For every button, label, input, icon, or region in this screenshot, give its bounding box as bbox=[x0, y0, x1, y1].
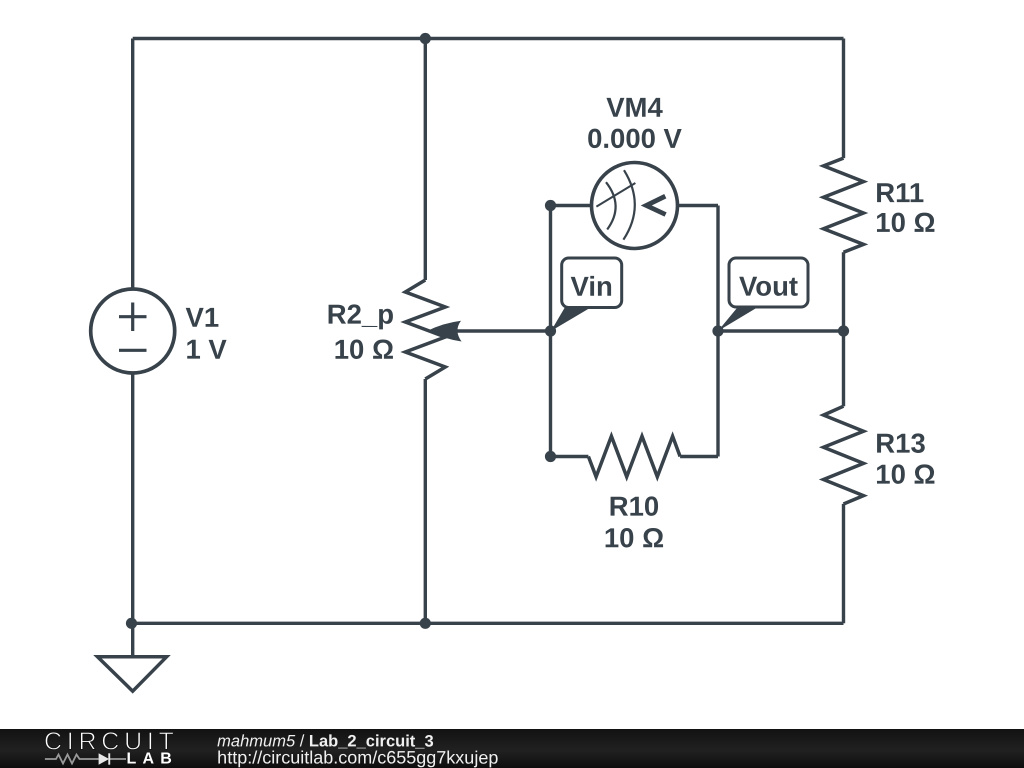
label V1 value bbox=[185, 302, 227, 365]
voltmeter VM4 bbox=[592, 163, 678, 249]
junction dot bottom rail ground bbox=[126, 618, 137, 629]
footer bar bbox=[0, 729, 1024, 768]
CircuitLab logo resistor squiggle and diode bbox=[45, 755, 126, 764]
svg-text:10 Ω: 10 Ω bbox=[875, 459, 935, 490]
wire right vertical middle (R11 to R13) bbox=[842, 252, 845, 406]
wire middle vertical lower (R2_p to bottom rail) bbox=[424, 379, 427, 623]
node Vout flag bbox=[718, 258, 808, 331]
wire bottom horizontal bbox=[133, 622, 844, 625]
svg-text:1 V: 1 V bbox=[185, 334, 227, 365]
junction dot Vout at right rail bbox=[838, 325, 849, 336]
wire meter loop left vertical bbox=[549, 206, 552, 457]
wire right vertical bottom (R13 to bottom rail) bbox=[842, 504, 845, 623]
svg-text:R11: R11 bbox=[875, 177, 924, 208]
svg-text:V1: V1 bbox=[185, 302, 219, 333]
svg-text:R13: R13 bbox=[875, 428, 925, 459]
junction dot Vin node bbox=[545, 325, 556, 336]
svg-text:0.000 V: 0.000 V bbox=[587, 123, 682, 154]
wire R10 right lead bbox=[680, 455, 718, 458]
wire top horizontal bbox=[133, 37, 844, 40]
label R11 value bbox=[875, 177, 935, 238]
ground bbox=[98, 657, 167, 691]
wire wiper to Vin node bbox=[448, 329, 551, 332]
svg-text:LAB: LAB bbox=[126, 751, 177, 768]
junction dot voltmeter left terminal bbox=[545, 200, 556, 211]
svg-text:R2_p: R2_p bbox=[327, 299, 394, 330]
wire R10 left lead bbox=[551, 455, 589, 458]
junction dot Vout node bbox=[712, 325, 723, 336]
wire Vout node to right rail bbox=[718, 329, 844, 332]
wire ground stub bbox=[131, 623, 134, 657]
svg-text:Vin: Vin bbox=[571, 271, 613, 302]
potentiometer R2_p bbox=[405, 280, 445, 379]
label VM4 value bbox=[587, 92, 682, 154]
svg-text:10 Ω: 10 Ω bbox=[875, 207, 935, 238]
resistor R10 bbox=[588, 436, 680, 477]
svg-text:http://circuitlab.com/c655gg7k: http://circuitlab.com/c655gg7kxujep bbox=[217, 748, 498, 768]
svg-text:10 Ω: 10 Ω bbox=[604, 522, 664, 553]
junction dot top rail / R2_p branch bbox=[420, 33, 431, 44]
svg-text:Vout: Vout bbox=[739, 271, 798, 302]
label R2_p value bbox=[327, 299, 394, 365]
junction dot bottom rail / R2_p branch bbox=[420, 618, 431, 629]
wire middle vertical upper (top rail to R2_p) bbox=[424, 39, 427, 281]
svg-text:VM4: VM4 bbox=[606, 92, 663, 123]
voltage source V1 bbox=[91, 289, 175, 373]
CircuitLab logo wordmark CIRCUIT bbox=[44, 728, 179, 756]
label R13 value bbox=[875, 428, 935, 490]
node Vin flag bbox=[551, 258, 622, 331]
resistor R11 bbox=[824, 158, 864, 252]
junction dot R10 left bbox=[545, 451, 556, 462]
potentiometer R2_p wiper arrow bbox=[428, 321, 462, 342]
label R10 value bbox=[604, 491, 664, 554]
wire meter loop right vertical bbox=[716, 206, 719, 457]
wire voltmeter left lead bbox=[551, 204, 592, 207]
wire right vertical top (top rail to R11) bbox=[842, 39, 845, 159]
svg-text:R10: R10 bbox=[609, 491, 659, 522]
wire voltmeter right lead bbox=[678, 204, 719, 207]
wire left vertical upper (top rail to V1) bbox=[131, 39, 134, 290]
resistor R13 bbox=[824, 406, 864, 504]
wire left vertical lower (V1 to bottom rail) bbox=[131, 374, 134, 624]
svg-text:10 Ω: 10 Ω bbox=[334, 334, 394, 365]
